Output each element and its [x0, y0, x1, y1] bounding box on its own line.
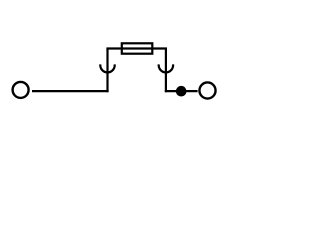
wire	[106, 49, 108, 93]
terminal right	[199, 82, 215, 98]
terminal left	[13, 82, 29, 98]
wire	[165, 90, 198, 92]
fuse	[122, 43, 153, 53]
junction dot	[176, 86, 187, 97]
wire	[165, 49, 167, 93]
wire	[32, 90, 109, 92]
contact socket left	[100, 64, 114, 72]
wire	[106, 47, 167, 49]
contact socket right	[159, 64, 173, 72]
